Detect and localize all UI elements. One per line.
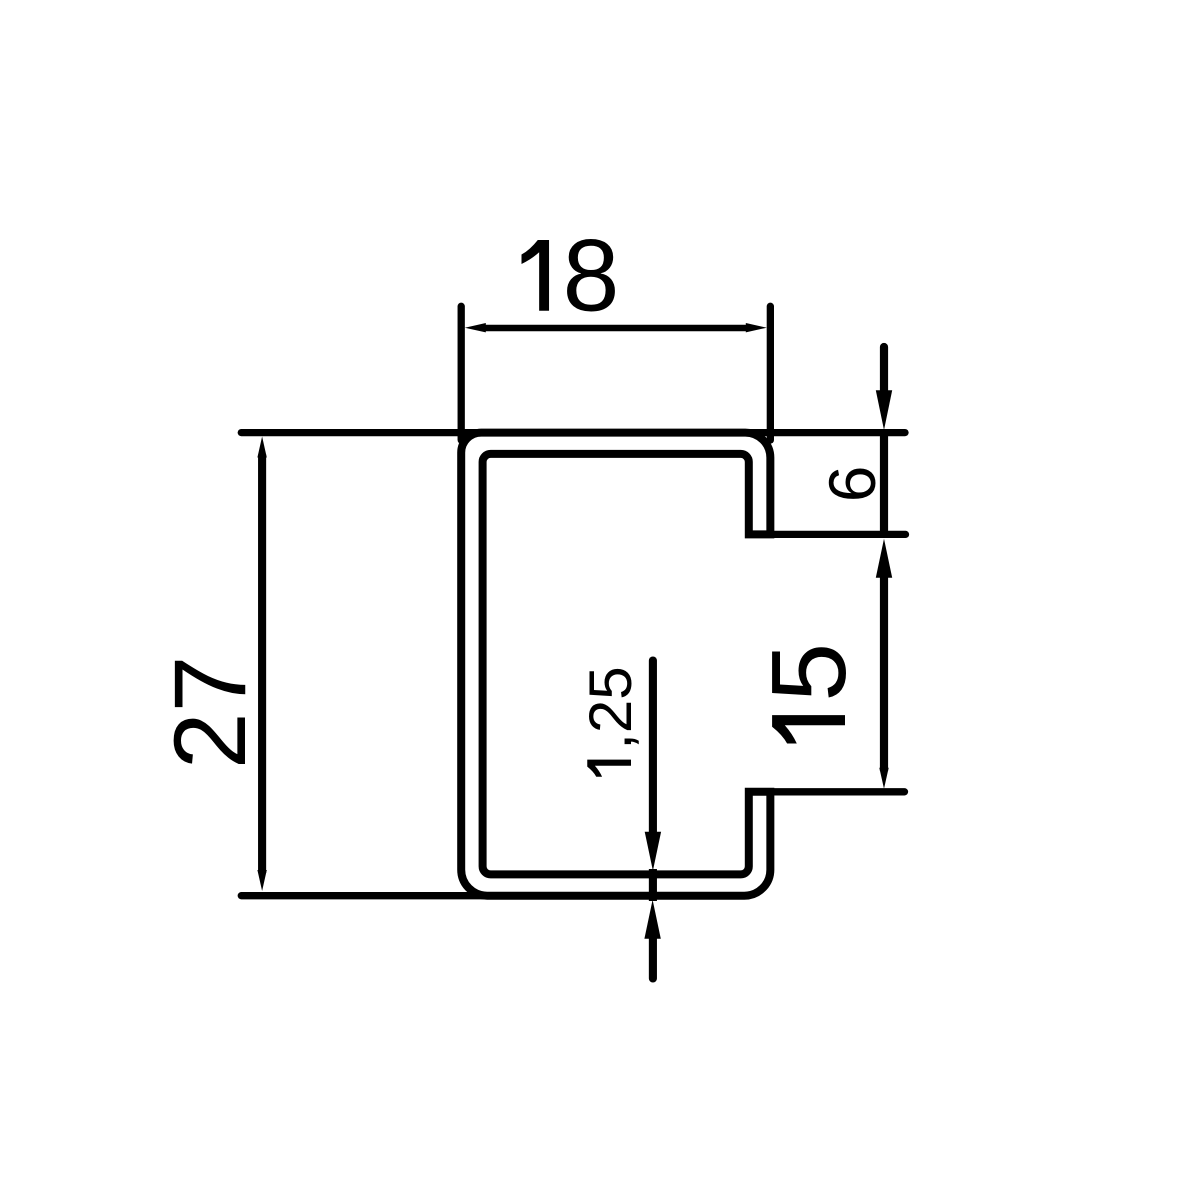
- svg-text:6: 6: [815, 466, 889, 503]
- svg-text:5: 5: [750, 643, 868, 702]
- svg-text:,25: ,25: [577, 666, 644, 749]
- svg-text:8: 8: [563, 219, 620, 333]
- svg-text:27: 27: [153, 656, 267, 769]
